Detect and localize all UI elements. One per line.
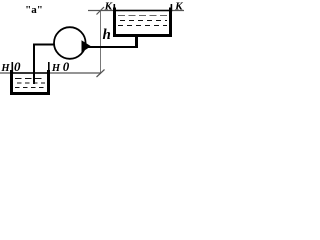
pump triangle (flow direction) [82,40,92,52]
upper tank left wall [113,8,116,38]
svg-text:К: К [104,1,113,13]
tick at left end of n-0 line [12,62,14,74]
suction pipe vertical (down into lower tank) [33,44,35,85]
tick at right end of k line [171,4,173,12]
upper tank water dashes row 3 [118,25,167,27]
delivery pipe horizontal [85,46,138,48]
lower tank bottom [10,92,50,95]
dimension line h (vertical) [100,11,102,75]
lower level line n-0 [0,72,101,74]
upper level line k-k [88,10,184,12]
oblique tick bottom of dimension [97,70,105,78]
upper tank water dashes row 1 [118,15,167,17]
svg-text:0: 0 [63,59,70,74]
delivery pipe riser into upper tank [135,36,138,48]
upper tank water dashes row 2 [120,20,167,22]
lower tank water dashes row 3 [15,87,45,89]
upper tank bottom [113,34,172,37]
svg-text:Н: Н [51,63,61,74]
tick at left end of k line [114,4,116,12]
tick at right end of n-0 line [48,62,50,74]
svg-text:Н: Н [0,63,10,74]
svg-text:"а": "а" [25,4,43,16]
lower tank left wall [10,70,13,95]
pump circle [54,27,86,59]
lower tank water dashes row 1 [15,78,45,80]
suction pipe horizontal [33,44,54,46]
svg-text:0: 0 [14,59,21,74]
oblique tick top of dimension [97,7,105,15]
upper tank right wall [169,8,172,38]
lower tank water dashes row 2 [17,82,45,84]
lower tank right wall [47,70,50,95]
upper water surface (inside tank, darker) [114,10,171,12]
svg-text:К: К [174,1,183,13]
svg-text:h: h [103,27,111,43]
lower water surface (inside tank, darker) [11,72,49,74]
